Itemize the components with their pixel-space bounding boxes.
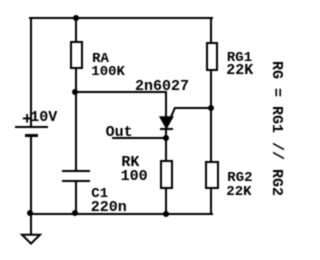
label +10V plus sign [22, 112, 32, 129]
label RG = RG1 // RG2 (rotated) [269, 61, 284, 196]
wire: RG2 bottom lead [210, 189, 212, 215]
wire: Out horizontal [112, 137, 167, 139]
wire: left rail upper (battery + to top rail) [30, 17, 32, 126]
label 22K lower [226, 185, 251, 199]
label C1 [91, 187, 108, 201]
wire: bottom ground rail [29, 213, 213, 215]
node: RK/ground rail junction [163, 211, 169, 217]
battery B1 positive plate [15, 126, 48, 128]
wire: cathode lead down to RK [165, 130, 167, 160]
node: gate/RG1/RG2 junction [208, 105, 214, 111]
label 22K upper [226, 63, 253, 78]
label RG2 [227, 171, 252, 185]
node: cathode/Out junction [163, 135, 169, 141]
label +10V value [30, 110, 57, 125]
resistor RG1 body [206, 42, 219, 71]
label 100K [91, 65, 125, 79]
wire: RA bottom lead down to C1 [75, 68, 77, 170]
resistor RA body [70, 41, 84, 69]
transistor Q1 cathode bar [160, 128, 173, 130]
node: RA top junction [73, 15, 79, 21]
label 220n [91, 200, 127, 215]
label Out [106, 125, 133, 140]
node: C1/ground rail junction [72, 210, 78, 216]
wire: RG1 top lead [210, 17, 212, 43]
node: RA/C1/anode junction [72, 89, 78, 95]
battery B1 negative plate [25, 134, 38, 136]
label 100 [121, 169, 148, 184]
wire: gate horizontal to RG junction [174, 107, 212, 109]
wire: anode horizontal [75, 91, 167, 93]
wire: anode vertical [165, 92, 167, 117]
wire: top supply rail [29, 17, 213, 19]
wire: left rail lower (battery - to ground rail) [30, 137, 32, 235]
label 2n6027 [135, 79, 189, 94]
label RG1 [227, 51, 252, 65]
capacitor C1 bottom plate [62, 180, 89, 182]
node: battery/ground junction [27, 210, 33, 216]
resistor RG2 body [205, 161, 218, 188]
wire: C1 bottom lead [75, 182, 77, 213]
label RK [121, 155, 139, 170]
capacitor C1 top plate [62, 170, 89, 172]
wire: RG1 to RG2 [210, 70, 212, 162]
resistor RK body [160, 160, 173, 189]
label RA [92, 52, 109, 66]
wire: RK bottom lead [165, 189, 167, 213]
wire: RA top lead [75, 17, 77, 41]
